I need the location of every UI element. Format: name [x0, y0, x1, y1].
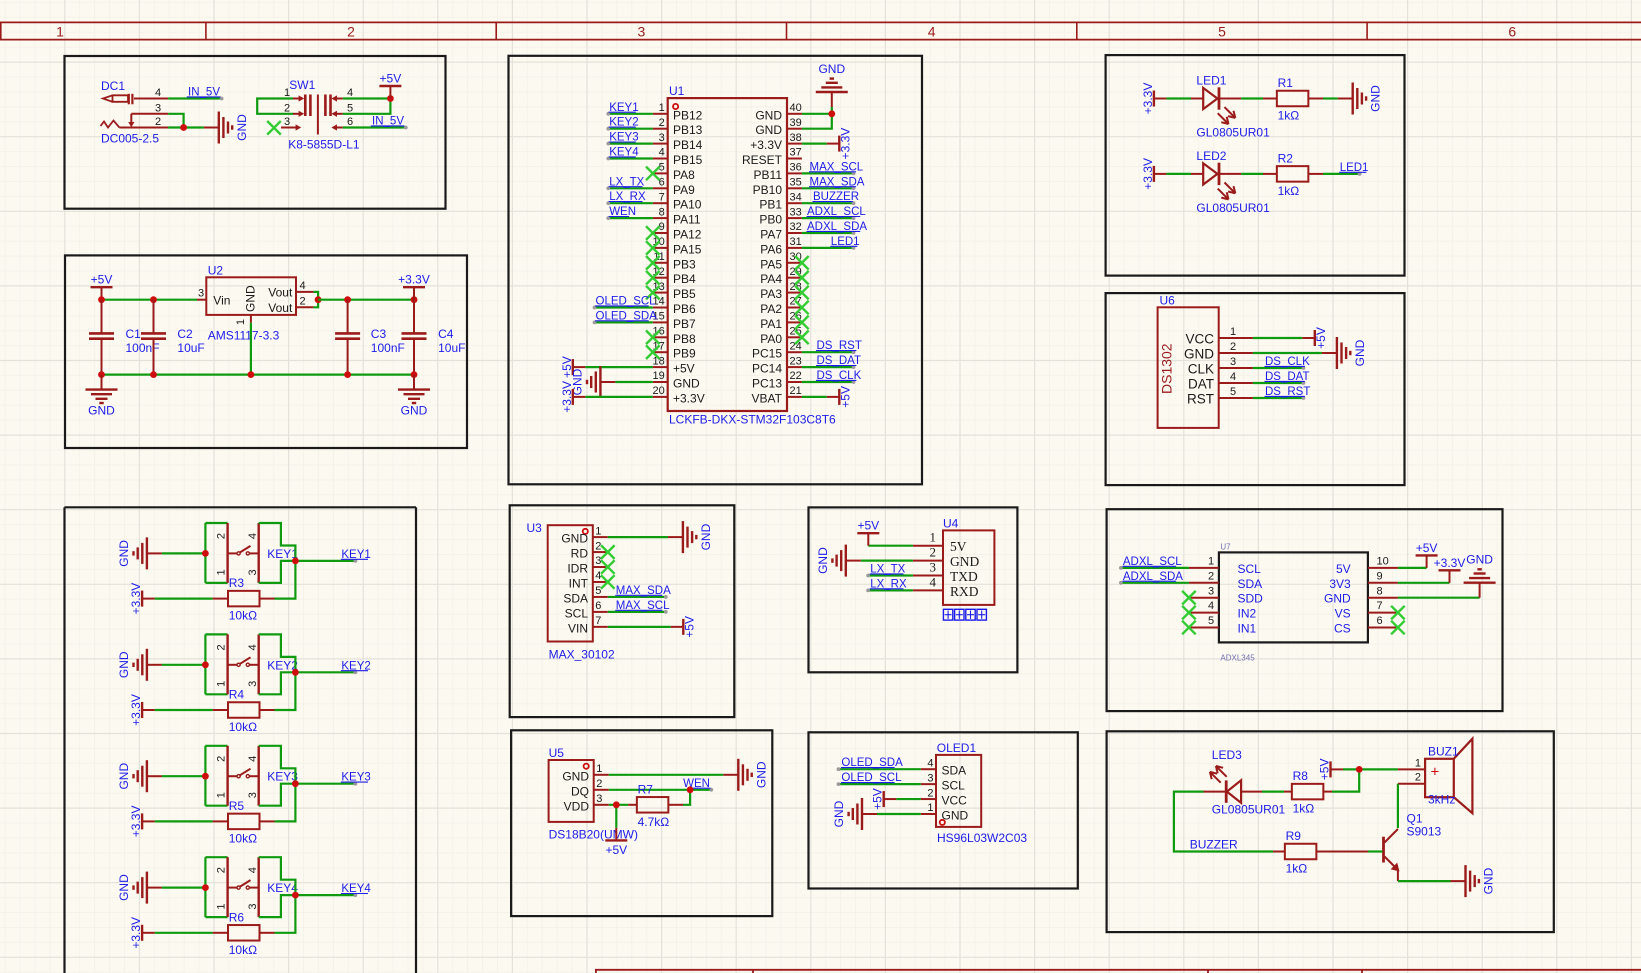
- wire: [1332, 769, 1359, 791]
- wire: [205, 633, 227, 635]
- svg-text:GND: GND: [1324, 592, 1351, 606]
- power flag +3.3V: [129, 806, 155, 838]
- svg-text:PB9: PB9: [673, 347, 696, 361]
- wire: [162, 664, 206, 666]
- node LED1: [830, 236, 859, 250]
- svg-text:3: 3: [596, 793, 602, 805]
- pin 18 of U1 (+5V): [653, 355, 695, 375]
- svg-text:4: 4: [927, 757, 933, 769]
- svg-text:U5: U5: [549, 746, 565, 760]
- power flag +5V: [857, 519, 879, 546]
- junction KEY4 output: [292, 892, 299, 899]
- svg-text:GND: GND: [117, 540, 131, 567]
- block frame: buzzer section: [1107, 731, 1554, 932]
- svg-text:5: 5: [347, 102, 353, 114]
- capacitor C4: [402, 327, 466, 355]
- ground at U6: [1322, 337, 1367, 369]
- svg-text:GND: GND: [818, 62, 845, 76]
- svg-text:31: 31: [790, 236, 802, 248]
- svg-text:+5V: +5V: [91, 273, 113, 287]
- LED1 cathode lead: [1219, 98, 1241, 100]
- svg-text:8: 8: [659, 206, 665, 218]
- svg-text:SDA: SDA: [942, 764, 967, 778]
- node OLED_SDA: [837, 757, 903, 771]
- svg-text:1kΩ: 1kΩ: [1293, 802, 1315, 816]
- node KEY2: [341, 660, 371, 674]
- svg-text:C1: C1: [126, 327, 142, 341]
- pin 20 of U1 (+3.3V): [653, 385, 705, 405]
- resistor R1: [1277, 76, 1309, 106]
- svg-text:TXD: TXD: [950, 569, 978, 584]
- svg-text:4.7kΩ: 4.7kΩ: [638, 815, 670, 829]
- block frame: MCU section: [509, 56, 923, 485]
- wire: [205, 582, 227, 584]
- svg-text:+3.3V: +3.3V: [129, 583, 143, 615]
- svg-text:PA10: PA10: [673, 198, 702, 212]
- svg-text:7: 7: [595, 615, 601, 627]
- wire: [585, 366, 653, 368]
- svg-text:DQ: DQ: [571, 784, 589, 798]
- svg-text:PB7: PB7: [673, 317, 696, 331]
- no-connect X on U1 pin 29: [795, 271, 809, 285]
- ground at U5: [723, 759, 768, 791]
- junction buzzer +5V: [1356, 766, 1363, 773]
- wire: [802, 202, 854, 204]
- svg-text:GND: GND: [950, 554, 979, 569]
- junction U5 VDD: [613, 801, 620, 808]
- pin 1 of U6 (VCC): [1185, 326, 1252, 347]
- pin 10 of U7 (5V): [1336, 556, 1398, 576]
- node LED1: [1339, 162, 1368, 176]
- svg-text:PC14: PC14: [752, 362, 782, 376]
- wire: [162, 775, 206, 777]
- svg-text:PA1: PA1: [760, 317, 782, 331]
- node ADXL_SCL: [807, 206, 867, 220]
- svg-text:6: 6: [659, 177, 665, 189]
- pin 7 of U3 (VIN): [568, 615, 608, 635]
- wire: [683, 790, 690, 805]
- svg-text:GND: GND: [755, 123, 782, 137]
- wire: [313, 292, 318, 307]
- svg-text:GND: GND: [117, 763, 131, 790]
- pin 2 of U2: [296, 295, 313, 307]
- junction top rail C2: [150, 296, 157, 303]
- svg-text:1: 1: [284, 87, 290, 99]
- wire: [295, 894, 355, 896]
- wire: [275, 672, 296, 710]
- wire: [802, 217, 854, 219]
- svg-text:PB13: PB13: [673, 123, 703, 137]
- sensor U3: [527, 521, 615, 662]
- LED LED3: [1210, 748, 1286, 817]
- pin 14 of U1 (PB6): [653, 296, 696, 316]
- capacitor C4 lead top: [413, 300, 415, 334]
- wire: [318, 299, 414, 301]
- svg-text:33: 33: [790, 206, 802, 218]
- wire: [168, 126, 204, 128]
- ground at U7: [1464, 553, 1496, 598]
- svg-text:DAT: DAT: [1188, 377, 1214, 392]
- svg-text:9: 9: [1377, 570, 1383, 582]
- resistor R5 right lead: [260, 820, 275, 822]
- wire: [615, 805, 617, 828]
- svg-text:21: 21: [790, 385, 802, 397]
- pin 3 of DC1 with switch arrow: [128, 102, 168, 127]
- pin 22 of U1 (PC13): [752, 370, 802, 390]
- svg-text:S9013: S9013: [1407, 825, 1442, 839]
- svg-text:R8: R8: [1293, 769, 1309, 783]
- svg-text:+5V: +5V: [1318, 759, 1332, 781]
- svg-text:PA11: PA11: [673, 213, 701, 227]
- capacitor C1 lead bottom: [101, 339, 103, 375]
- wire: [259, 746, 296, 784]
- RTC U6: [1158, 293, 1219, 428]
- wire: [1253, 337, 1302, 339]
- wire: [608, 536, 668, 538]
- wire: [839, 768, 921, 770]
- wire: [295, 783, 355, 785]
- svg-text:2: 2: [927, 787, 933, 799]
- svg-text:2: 2: [216, 644, 228, 650]
- wire: [608, 113, 653, 115]
- power flag +3.3V: [1434, 556, 1466, 583]
- svg-text:CS: CS: [1334, 622, 1351, 636]
- wire: [608, 626, 671, 628]
- pin 1 of U2: [235, 315, 251, 325]
- wire: [802, 396, 827, 398]
- svg-text:1: 1: [930, 530, 937, 545]
- pin 25 of U1 (PA0): [760, 326, 802, 346]
- no-connect X on U1 pin 11: [646, 256, 660, 270]
- svg-text:36: 36: [790, 162, 802, 174]
- pin 36 of U1 (PB11): [754, 162, 802, 182]
- junction bottom rail C3: [344, 371, 351, 378]
- svg-text:1: 1: [216, 569, 228, 575]
- svg-text:7: 7: [1377, 600, 1383, 612]
- MCU U1: [668, 84, 836, 427]
- junction KEY1 output: [292, 558, 299, 565]
- svg-text:3: 3: [1230, 356, 1236, 368]
- svg-text:PB8: PB8: [673, 332, 696, 346]
- no-connect X on U3 pin 3: [601, 560, 615, 574]
- LED1 anode lead: [1191, 98, 1203, 100]
- svg-text:4: 4: [247, 756, 259, 762]
- svg-text:SCL: SCL: [942, 779, 966, 793]
- display OLED1: [936, 741, 1027, 845]
- wire: [802, 232, 854, 234]
- junction U2 output: [315, 296, 322, 303]
- pin 5 of U1 (PA8): [653, 162, 695, 182]
- regulator U2: [206, 264, 296, 343]
- svg-text:2: 2: [1230, 341, 1236, 353]
- svg-text:GND: GND: [235, 114, 249, 141]
- pin 6 of U1 (PA9): [653, 177, 695, 197]
- wire: [102, 299, 198, 301]
- pin 2 of U1 (PB13): [653, 117, 703, 137]
- pin 4 of U3 (INT): [569, 570, 608, 590]
- svg-text:SCL: SCL: [1238, 562, 1262, 576]
- junction top rail C3: [344, 296, 351, 303]
- svg-text:GND: GND: [117, 874, 131, 901]
- svg-text:GND: GND: [673, 377, 700, 391]
- svg-text:PA12: PA12: [673, 228, 702, 242]
- pin 10 of U1 (PA15): [653, 236, 702, 256]
- ground at OLED1: [832, 798, 877, 830]
- svg-text:1: 1: [56, 24, 64, 40]
- pin 3 of U6 (CLK): [1188, 356, 1253, 377]
- pin 2 of U4 (GND): [913, 545, 980, 570]
- LED3 anode lead: [1241, 791, 1262, 793]
- pin 2 of DC1 (ground sleeve): [101, 116, 169, 128]
- pin 17 of U1 (PB9): [653, 340, 696, 360]
- pin 5 of U7 (IN1): [1189, 615, 1257, 635]
- pin 2 of U3 (RD): [571, 540, 608, 560]
- wire: [204, 857, 206, 917]
- wire: [259, 895, 296, 917]
- svg-text:1: 1: [216, 792, 228, 798]
- svg-text:C3: C3: [371, 327, 387, 341]
- wire: [205, 522, 227, 524]
- pin 6 of U3 (SCL): [565, 600, 608, 620]
- junction KEY1 left: [202, 550, 209, 557]
- wire: [205, 745, 227, 747]
- svg-text:VBAT: VBAT: [752, 391, 783, 405]
- svg-text:2: 2: [1208, 570, 1214, 582]
- svg-text:+3.3V: +3.3V: [398, 273, 430, 287]
- svg-text:AMS1117-3.3: AMS1117-3.3: [208, 329, 280, 343]
- wire: [868, 589, 913, 591]
- wire: [205, 916, 227, 918]
- svg-text:40: 40: [790, 102, 802, 114]
- svg-text:K8-5855D-L1: K8-5855D-L1: [288, 138, 360, 152]
- svg-text:+5V: +5V: [682, 616, 696, 638]
- pin 5 of U6 (RST): [1187, 386, 1253, 407]
- wire: [1253, 397, 1304, 399]
- svg-text:R7: R7: [638, 782, 654, 796]
- svg-text:3: 3: [247, 792, 259, 798]
- svg-text:PB1: PB1: [759, 198, 782, 212]
- capacitor C2 lead top: [153, 300, 155, 334]
- no-connect X on U1 pin 5: [646, 167, 660, 181]
- pin 21 of U1 (VBAT): [752, 385, 802, 405]
- power flag +5V: [379, 72, 401, 99]
- node KEY3: [606, 132, 638, 146]
- svg-text:1kΩ: 1kΩ: [1286, 862, 1308, 876]
- wire: [802, 351, 854, 353]
- node BUZZER: [813, 191, 860, 205]
- block frame: bluetooth section: [809, 507, 1018, 672]
- svg-text:VCC: VCC: [1185, 332, 1214, 347]
- svg-text:3: 3: [284, 116, 290, 128]
- wire: [595, 321, 653, 323]
- capacitor C3 lead bottom: [347, 339, 349, 375]
- power flag +3.3V: [129, 917, 155, 949]
- pin 3 of U5 (VDD): [564, 793, 609, 813]
- wire: [275, 561, 296, 599]
- svg-text:GND: GND: [699, 523, 713, 550]
- wire: [155, 932, 213, 934]
- wire: [609, 774, 724, 776]
- svg-text:38: 38: [790, 132, 802, 144]
- svg-text:PA4: PA4: [760, 272, 782, 286]
- transistor Q1: [1384, 812, 1442, 872]
- LED LED2: [1196, 149, 1270, 215]
- svg-text:+5V: +5V: [871, 788, 885, 810]
- resistor R3 left lead: [213, 598, 228, 600]
- junction bottom rail C1: [98, 371, 105, 378]
- pin 7 of U7 (VS): [1335, 600, 1398, 620]
- svg-text:+3.3V: +3.3V: [673, 391, 705, 405]
- LED2 anode lead: [1191, 173, 1203, 175]
- pin 23 of U1 (PC14): [752, 355, 802, 375]
- wire: [205, 856, 227, 858]
- svg-text:2: 2: [596, 778, 602, 790]
- svg-text:1: 1: [659, 102, 665, 114]
- svg-text:C2: C2: [177, 327, 193, 341]
- svg-text:1: 1: [1415, 757, 1421, 769]
- svg-text:+3.3V: +3.3V: [1141, 158, 1155, 190]
- svg-text:HS96L03W2C03: HS96L03W2C03: [937, 831, 1027, 845]
- module U4: [943, 517, 994, 605]
- wire: [1323, 173, 1360, 175]
- no-connect X on U1 pin 16: [646, 331, 660, 345]
- wire: [609, 789, 712, 791]
- pin 30 of U1 (PA5): [760, 251, 802, 271]
- svg-text:IDR: IDR: [567, 562, 588, 576]
- LED2 cathode lead: [1219, 173, 1241, 175]
- pin 32 of U1 (PA7): [760, 221, 802, 241]
- capacitor C2 lead bottom: [153, 339, 155, 375]
- pin 2 of BUZ1: [1398, 772, 1425, 784]
- wire: [802, 113, 832, 115]
- ground at KEY1: [117, 537, 162, 569]
- no-connect X on U7 pin 3: [1182, 591, 1196, 605]
- pin 2 of SW1: [284, 102, 304, 117]
- pin 3 of U7 (SDD): [1189, 585, 1263, 605]
- svg-text:SDD: SDD: [1238, 592, 1264, 606]
- wire: [1121, 567, 1189, 569]
- wire: [608, 611, 666, 613]
- pin 31 of U1 (PA6): [760, 236, 802, 256]
- pin 5 of SW1: [331, 102, 353, 117]
- wire: [102, 374, 415, 376]
- accelerometer U7: [1219, 543, 1368, 663]
- wire: [343, 126, 406, 128]
- svg-text:MAX_30102: MAX_30102: [549, 648, 615, 662]
- pin 1 of U7 (SCL): [1189, 556, 1261, 576]
- no-connect X on U1 pin 27: [795, 301, 809, 315]
- pin 33 of U1 (PB0): [759, 206, 802, 226]
- pin 34 of U1 (PB1): [759, 191, 802, 211]
- svg-text:+5V: +5V: [1314, 327, 1328, 349]
- resistor R4 right lead: [260, 709, 275, 711]
- wire: [608, 143, 653, 145]
- capacitor C1: [89, 327, 160, 355]
- wire: [802, 366, 854, 368]
- wire: [839, 783, 921, 785]
- pin 2 of U5 (DQ): [571, 778, 609, 798]
- pin 1 of U1 (PB12): [653, 102, 703, 122]
- pin 35 of U1 (PB10): [753, 177, 802, 197]
- svg-text:22: 22: [790, 370, 802, 382]
- block frame: keys section: [65, 507, 417, 973]
- svg-text:PB12: PB12: [673, 108, 703, 122]
- svg-text:PA0: PA0: [760, 332, 782, 346]
- wire: [259, 634, 296, 672]
- resistor R6 left lead: [213, 932, 228, 934]
- ground above U1: [816, 62, 848, 107]
- svg-text:GND: GND: [1353, 339, 1367, 366]
- node IN_5V: [371, 116, 408, 130]
- svg-text:10kΩ: 10kΩ: [229, 720, 257, 734]
- svg-text:4: 4: [155, 87, 161, 99]
- pin 29 of U1 (PA4): [760, 266, 802, 286]
- svg-text:4: 4: [300, 280, 306, 292]
- power flag +3.3V: [1141, 158, 1167, 190]
- resistor R6: [228, 910, 260, 940]
- node MAX_SDA: [615, 585, 671, 599]
- node DS_RST: [1265, 386, 1311, 400]
- wire: [896, 798, 921, 800]
- no-connect X on U1 pin 13: [646, 286, 660, 300]
- svg-text:10uF: 10uF: [438, 341, 465, 355]
- node LX_RX: [606, 191, 646, 205]
- wire: [1397, 784, 1399, 828]
- pin 4 of SW1: [331, 87, 353, 102]
- junction U5 DQ: [687, 786, 694, 793]
- node LX_TX: [866, 564, 905, 578]
- node OLED_SCL: [593, 296, 657, 310]
- power flag +3.3V: [398, 273, 430, 300]
- junction bottom rail C4: [411, 371, 418, 378]
- pin 4 of U1 (PB15): [653, 147, 703, 167]
- svg-text:1: 1: [1230, 326, 1236, 338]
- junction KEY2 left: [202, 661, 209, 668]
- pin 19 of U1 (GND): [653, 370, 700, 390]
- junction top rail C1: [98, 296, 105, 303]
- wire: [1241, 173, 1263, 175]
- wire: [259, 857, 296, 895]
- ground at R1: [1338, 83, 1383, 115]
- svg-text:BUZZER: BUZZER: [1190, 838, 1238, 852]
- svg-text:3: 3: [155, 102, 161, 114]
- svg-text:5: 5: [595, 585, 601, 597]
- resistor R5 left lead: [213, 820, 228, 822]
- no-connect X on U1 pin 17: [646, 345, 660, 359]
- wire: [1166, 97, 1191, 99]
- svg-text:+5V: +5V: [857, 519, 879, 533]
- svg-text:10kΩ: 10kΩ: [229, 609, 257, 623]
- wire: [608, 187, 653, 189]
- no-connect X on U7 pin 7: [1391, 606, 1405, 620]
- wire: [155, 597, 213, 599]
- wire: [1174, 792, 1273, 852]
- pin 8 of U1 (PA11): [653, 206, 701, 226]
- svg-text:35: 35: [790, 177, 802, 189]
- svg-text:19: 19: [653, 370, 665, 382]
- ground: [398, 375, 430, 418]
- svg-text:PA9: PA9: [673, 183, 695, 197]
- svg-text:+3.3V: +3.3V: [560, 381, 574, 413]
- pin 3 of U4 (TXD): [913, 560, 978, 585]
- svg-text:PB14: PB14: [673, 138, 703, 152]
- no-connect X on U1 pin 26: [795, 316, 809, 330]
- resistor R2 right lead: [1309, 173, 1324, 175]
- resistor R8 left lead: [1284, 791, 1292, 793]
- node KEY2: [606, 117, 638, 131]
- svg-text:U6: U6: [1160, 293, 1176, 307]
- svg-text:4: 4: [659, 147, 665, 159]
